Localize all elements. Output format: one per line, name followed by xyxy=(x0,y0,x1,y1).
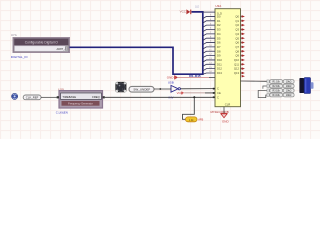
svg-text:AFB: AFB xyxy=(198,118,203,122)
svg-text:R1 10k: R1 10k xyxy=(273,82,281,84)
net arrow RCO xyxy=(242,75,245,78)
pin names Q0..Q13 xyxy=(234,15,240,76)
net arrow Q5 xyxy=(241,37,243,39)
svg-text:1LD: 1LD xyxy=(195,7,200,9)
pin C xyxy=(213,88,215,90)
pin D6 xyxy=(203,43,215,45)
net arrow Q1 xyxy=(241,20,243,22)
svg-text:10kΩ: 10kΩ xyxy=(286,91,292,93)
wire SW_UNDEF to U5B input xyxy=(154,88,171,90)
svg-text:D3: D3 xyxy=(217,28,221,32)
pin D1 xyxy=(203,21,215,23)
svg-text:Q6: Q6 xyxy=(235,41,239,45)
bus from U7A to U3A xyxy=(70,12,203,74)
svg-text:Configurable Digital IO: Configurable Digital IO xyxy=(25,41,59,45)
right pin xyxy=(103,96,105,98)
pin D2 xyxy=(203,25,215,27)
resistor network row R4 xyxy=(267,93,294,97)
svg-text:D13: D13 xyxy=(217,71,222,75)
pin D4 xyxy=(203,34,215,36)
svg-text:Q7: Q7 xyxy=(235,45,239,49)
off-page connector GND (left of U3A) xyxy=(167,75,215,79)
wire loop to rows 3 and 4 xyxy=(258,91,267,98)
wire GND to pin xyxy=(178,76,209,78)
svg-text:SW_UNDEF: SW_UNDEF xyxy=(133,88,150,92)
resistor network row R3 xyxy=(267,89,294,93)
svg-text:D10: D10 xyxy=(217,58,222,62)
pin G xyxy=(213,96,215,98)
net arrow Q4 xyxy=(241,33,243,35)
svg-text:D8: D8 xyxy=(217,49,221,53)
svg-text:Q8: Q8 xyxy=(235,49,239,53)
svg-text:1.0k: 1.0k xyxy=(189,119,194,122)
frequency generator U10 xyxy=(57,87,105,108)
svg-text:D11: D11 xyxy=(217,62,222,66)
off-page connector VCC (top) xyxy=(180,9,192,14)
wire U10 to pin G with junction xyxy=(105,96,215,98)
svg-text:CE: CE xyxy=(217,91,221,95)
svg-text:Frequency Generator: Frequency Generator xyxy=(68,102,93,106)
connector J1 xyxy=(299,78,313,94)
bottom-left pins of U3A xyxy=(205,88,215,98)
net arrow Q6 xyxy=(241,42,243,44)
pin D9 xyxy=(203,56,215,58)
net arrow Q3 xyxy=(241,29,243,31)
wire to resistor row 2 xyxy=(263,86,267,89)
on-page connector SW_UNDEF xyxy=(129,86,154,92)
svg-text:GND: GND xyxy=(222,120,230,124)
svg-text:CLR: CLR xyxy=(225,103,231,107)
svg-text:Q1: Q1 xyxy=(235,19,239,23)
svg-text:C: C xyxy=(217,95,219,99)
wire junction down to probe xyxy=(183,97,195,119)
svg-text:R2 10k: R2 10k xyxy=(273,86,281,88)
left pin row 0 (1LD) wire xyxy=(203,11,215,13)
svg-text:10kΩ: 10kΩ xyxy=(286,82,292,84)
junction xyxy=(159,88,161,90)
pin D12 xyxy=(203,69,215,71)
switch icon S1 xyxy=(115,82,126,92)
svg-text:D5: D5 xyxy=(217,36,221,40)
pin CE xyxy=(205,92,215,94)
wire VCC to pin CE xyxy=(184,92,215,94)
on-page connector CLK_REF xyxy=(23,95,41,100)
wire U3A extra pin to resistor row 1 xyxy=(241,80,268,82)
svg-text:DIGITAL_IO: DIGITAL_IO xyxy=(11,55,28,59)
svg-text:GND: GND xyxy=(167,76,175,80)
svg-text:Q2: Q2 xyxy=(235,23,239,27)
svg-text:D2: D2 xyxy=(217,23,221,27)
svg-text:Q9: Q9 xyxy=(235,54,239,58)
IO block U7A (Configurable Digital IO) xyxy=(13,38,70,53)
svg-text:CLK_REF: CLK_REF xyxy=(26,96,39,100)
net arrow Q0 xyxy=(241,15,243,17)
svg-text:D4: D4 xyxy=(217,32,221,36)
resistor network row R1 xyxy=(267,80,294,84)
junction xyxy=(193,96,195,98)
svg-text:U5B: U5B xyxy=(168,80,174,84)
svg-text:D9: D9 xyxy=(217,54,221,58)
left data pins D0..D13 with bus entries xyxy=(203,16,215,74)
net arrow Q9 xyxy=(241,55,243,57)
svg-text:C.LK&EN: C.LK&EN xyxy=(56,111,68,115)
svg-text:D0: D0 xyxy=(217,15,221,19)
svg-text:D6: D6 xyxy=(217,41,221,45)
net arrow Q7 xyxy=(241,46,243,48)
svg-text:10kΩ: 10kΩ xyxy=(286,95,292,97)
svg-text:10kΩ: 10kΩ xyxy=(286,86,292,88)
pin D7 xyxy=(203,47,215,49)
net arrow Q8 xyxy=(241,50,243,52)
svg-text:Q13: Q13 xyxy=(234,71,240,75)
svg-text:Q11: Q11 xyxy=(234,62,239,66)
svg-text:R3 10k: R3 10k xyxy=(273,91,281,93)
wire U5B output to pin C xyxy=(180,88,215,90)
pin stub CLR to GND xyxy=(223,107,225,114)
left pin numbers xyxy=(209,15,212,74)
input terminal CLK_REF icon xyxy=(12,93,18,99)
svg-text:Q5: Q5 xyxy=(235,36,239,40)
probe P1 xyxy=(186,117,204,122)
svg-text:VCC: VCC xyxy=(180,10,187,14)
svg-text:TIMEBASE: TIMEBASE xyxy=(62,95,76,99)
inverter U5B xyxy=(168,80,181,99)
svg-text:D7: D7 xyxy=(217,45,221,49)
pin D10 xyxy=(203,60,215,62)
svg-text:C: C xyxy=(217,87,219,91)
svg-text:Q4: Q4 xyxy=(235,32,239,36)
svg-text:Q12: Q12 xyxy=(234,67,240,71)
net arrow Q10 xyxy=(241,59,243,61)
left pin xyxy=(57,96,59,98)
off-page connector VCC (mid) xyxy=(177,91,215,95)
svg-text:Q0: Q0 xyxy=(235,15,239,19)
ground symbol under U3A xyxy=(221,114,230,124)
net arrow Q11 xyxy=(241,63,243,65)
pin D8 xyxy=(203,51,215,53)
right output net arrows Q0..Q13 xyxy=(241,15,245,77)
svg-text:Q10: Q10 xyxy=(234,58,240,62)
pin D5 xyxy=(203,38,215,40)
pin D0 xyxy=(203,16,215,18)
IC U3A body xyxy=(215,9,241,107)
resistor network row R2 xyxy=(267,84,294,88)
net arrow Q13 xyxy=(241,72,243,74)
pin D13 xyxy=(203,73,215,74)
pin D3 xyxy=(203,30,215,32)
svg-text:R4 10k: R4 10k xyxy=(273,95,281,97)
svg-text:U3A: U3A xyxy=(215,4,221,8)
wire CLK_REF to U10 xyxy=(41,96,57,98)
svg-text:Q3: Q3 xyxy=(235,28,239,32)
svg-text:D1: D1 xyxy=(217,19,221,23)
pin D11 xyxy=(203,64,215,66)
svg-text:D12: D12 xyxy=(217,67,222,71)
svg-text:FREQ: FREQ xyxy=(92,95,99,99)
pin names D0..D13 xyxy=(217,15,222,76)
net arrow Q12 xyxy=(241,68,243,70)
net arrow Q2 xyxy=(241,24,243,26)
svg-text:U7A: U7A xyxy=(11,33,17,37)
